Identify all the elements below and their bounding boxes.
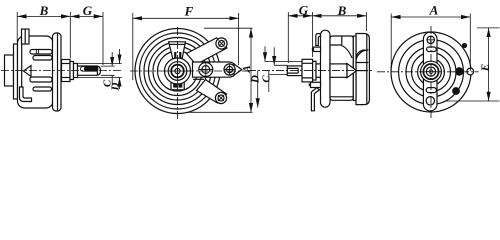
top screw cross — [427, 36, 434, 43]
bottom-left foot — [20, 87, 32, 102]
ext line B/G — [69, 12, 71, 59]
top-left J-hook right view — [316, 34, 321, 46]
D dim right: lower line — [257, 71, 259, 108]
funnel dark edge left — [174, 52, 176, 60]
winding circle 4 — [149, 42, 207, 100]
nut facet bottom — [62, 77, 71, 79]
D dim right: ext lines — [265, 62, 302, 75]
D dim left: ext lines — [78, 64, 122, 78]
bottom-right screw outer — [215, 92, 226, 103]
keyhole black fill left — [173, 77, 177, 87]
shaft — [78, 66, 101, 75]
hub ring 3 — [171, 65, 184, 78]
rear boss — [5, 55, 14, 86]
ext line F left — [132, 13, 134, 80]
svg-text:D: D — [110, 82, 122, 91]
terminal screw 2 cross — [224, 64, 235, 75]
ceramic body — [18, 36, 54, 108]
body inner left line — [21, 44, 23, 87]
svg-text:C: C — [260, 75, 272, 83]
svg-text:B: B — [337, 3, 347, 18]
sub-panel lines — [330, 36, 342, 45]
washer — [70, 62, 74, 80]
front plate inner line — [57, 33, 59, 111]
terminal bracket — [193, 62, 237, 77]
keyhole block — [171, 71, 184, 90]
bottom tab nub (black) — [309, 84, 311, 86]
shaft tip line — [96, 66, 98, 75]
bracket lower lip — [193, 78, 204, 80]
centerline right side view — [248, 70, 374, 72]
ext line E bottom — [446, 100, 500, 102]
hub centre ticks — [427, 67, 436, 76]
bar 1 ticks — [36, 50, 38, 55]
centerline right front view horizontal — [377, 71, 479, 73]
wiper funnel — [169, 42, 186, 60]
centerline left side view — [1, 70, 122, 72]
centerline centre front view horizontal — [130, 70, 252, 72]
C dim left: ext lines — [101, 66, 115, 75]
cone tail line — [357, 70, 368, 72]
ext line B left — [16, 12, 18, 42]
D dim right: arrow segments — [264, 46, 266, 61]
hub ring 2 — [168, 62, 187, 81]
centerline right front view vertical — [430, 26, 432, 119]
top tab nub (black) — [312, 48, 314, 50]
dim line G — [70, 15, 103, 17]
svg-text:A: A — [241, 65, 253, 73]
svg-text:F: F — [184, 4, 194, 19]
D dim left: arrow segments — [119, 49, 121, 64]
centerline centre front view vertical — [177, 27, 179, 121]
top-right arm — [187, 38, 228, 65]
terminal dot right (black) — [455, 67, 463, 75]
dim line G mid — [288, 15, 312, 17]
winding circle 6 — [158, 51, 198, 91]
collar — [74, 64, 78, 78]
svg-text:E: E — [480, 64, 492, 72]
dim line B mid — [312, 15, 366, 17]
winding circle 3 — [144, 38, 211, 105]
hub rings right view — [421, 61, 442, 82]
circle 4 — [412, 53, 451, 92]
bushing nut — [62, 60, 71, 82]
tab inner line — [24, 29, 26, 44]
ext line B mid right — [365, 12, 367, 31]
top-left tab right view — [314, 47, 321, 51]
winding bar 4 — [33, 87, 52, 91]
funnel inner line — [169, 43, 185, 45]
svg-text:G: G — [299, 3, 309, 18]
svg-text:A: A — [429, 3, 439, 18]
C dim left: arrow segments — [111, 52, 113, 66]
ext line E top — [477, 27, 500, 29]
terminal screw 2 inner — [227, 66, 233, 72]
top-right screw inner — [219, 41, 225, 47]
bottom-right screw inner — [218, 95, 224, 101]
top-left terminal tab — [22, 29, 30, 44]
shaft (left pointing) — [287, 66, 302, 76]
dim line F — [133, 17, 239, 19]
centre boss — [418, 59, 445, 86]
dim line A right — [391, 16, 470, 18]
bushing nut right — [302, 59, 313, 82]
slot oval upper — [427, 47, 437, 52]
winding circle outer — [135, 29, 220, 114]
hub ring outer — [165, 58, 191, 84]
front plate — [53, 33, 62, 111]
winding circle 5 — [153, 47, 202, 96]
rear block inner line — [366, 34, 368, 105]
terminal circle at edge — [467, 68, 474, 75]
funnel dark edge right — [179, 52, 181, 60]
outer circle — [391, 32, 471, 112]
C dim right: lower line — [268, 71, 270, 93]
ext line F right — [238, 13, 240, 65]
terminal screw 2 outer — [224, 64, 235, 75]
ceramic body right — [330, 36, 353, 100]
mounting strip — [423, 32, 437, 111]
dim line E — [488, 28, 490, 101]
nut facets right — [302, 63, 313, 78]
winding circle 2 — [140, 33, 216, 109]
bracket pointed tip — [234, 64, 242, 75]
top-right screw outer — [216, 38, 227, 49]
ext line A right left — [390, 14, 392, 71]
dim line A centre — [250, 28, 252, 112]
washer right — [313, 61, 316, 80]
mounting bar (side) — [321, 30, 331, 107]
arm curve side — [342, 46, 353, 59]
svg-text:G: G — [83, 3, 93, 18]
terminal dot lower right (black) — [452, 87, 460, 95]
rear thin plate — [353, 36, 356, 101]
ext line G/B mid — [311, 12, 313, 57]
nut facet top — [62, 63, 71, 65]
dim line B — [17, 15, 70, 17]
shaft slot outline — [81, 67, 99, 72]
winding bar 2 — [33, 56, 52, 61]
ext line G right — [102, 12, 104, 65]
circle 3 — [406, 47, 456, 97]
top-right screw cross — [219, 41, 225, 47]
terminal screw 1 inner — [202, 66, 210, 74]
wiper wedge — [24, 66, 32, 77]
bottom-left leg right view — [311, 88, 319, 111]
shaft slot (black) — [84, 67, 98, 72]
keyhole black fill right — [178, 77, 182, 87]
circle 2 — [399, 40, 464, 105]
svg-text:B: B — [39, 3, 49, 18]
barrel right — [316, 64, 321, 77]
ext line A centre bottom — [186, 111, 253, 113]
bottom-right arm — [197, 80, 227, 104]
hub crosshair — [165, 58, 191, 84]
winding bar 1 — [30, 50, 52, 55]
terminal screw 1 outer — [199, 63, 213, 77]
ext line A right right — [469, 14, 471, 72]
ext line A centre top — [204, 27, 253, 29]
rear shoulder arcs — [356, 50, 369, 63]
rear block — [356, 34, 369, 105]
bottom screw — [426, 97, 434, 105]
slot oval lower — [426, 88, 436, 93]
winding bar 3 — [30, 77, 52, 82]
hub centre hole — [175, 68, 180, 73]
body winding line bottom — [331, 96, 354, 98]
bottom-left tab right view — [311, 82, 321, 87]
shaft slot lines — [287, 68, 298, 73]
top screw — [427, 36, 434, 43]
terminal screw 1 cross — [199, 63, 213, 77]
bottom-right screw cross — [218, 95, 224, 101]
hub cone side — [347, 64, 357, 78]
rear plate — [14, 44, 18, 99]
hub cylinder side — [330, 64, 347, 77]
rim lug dot upper right (black) — [462, 43, 467, 48]
ext line G mid left — [287, 12, 289, 63]
